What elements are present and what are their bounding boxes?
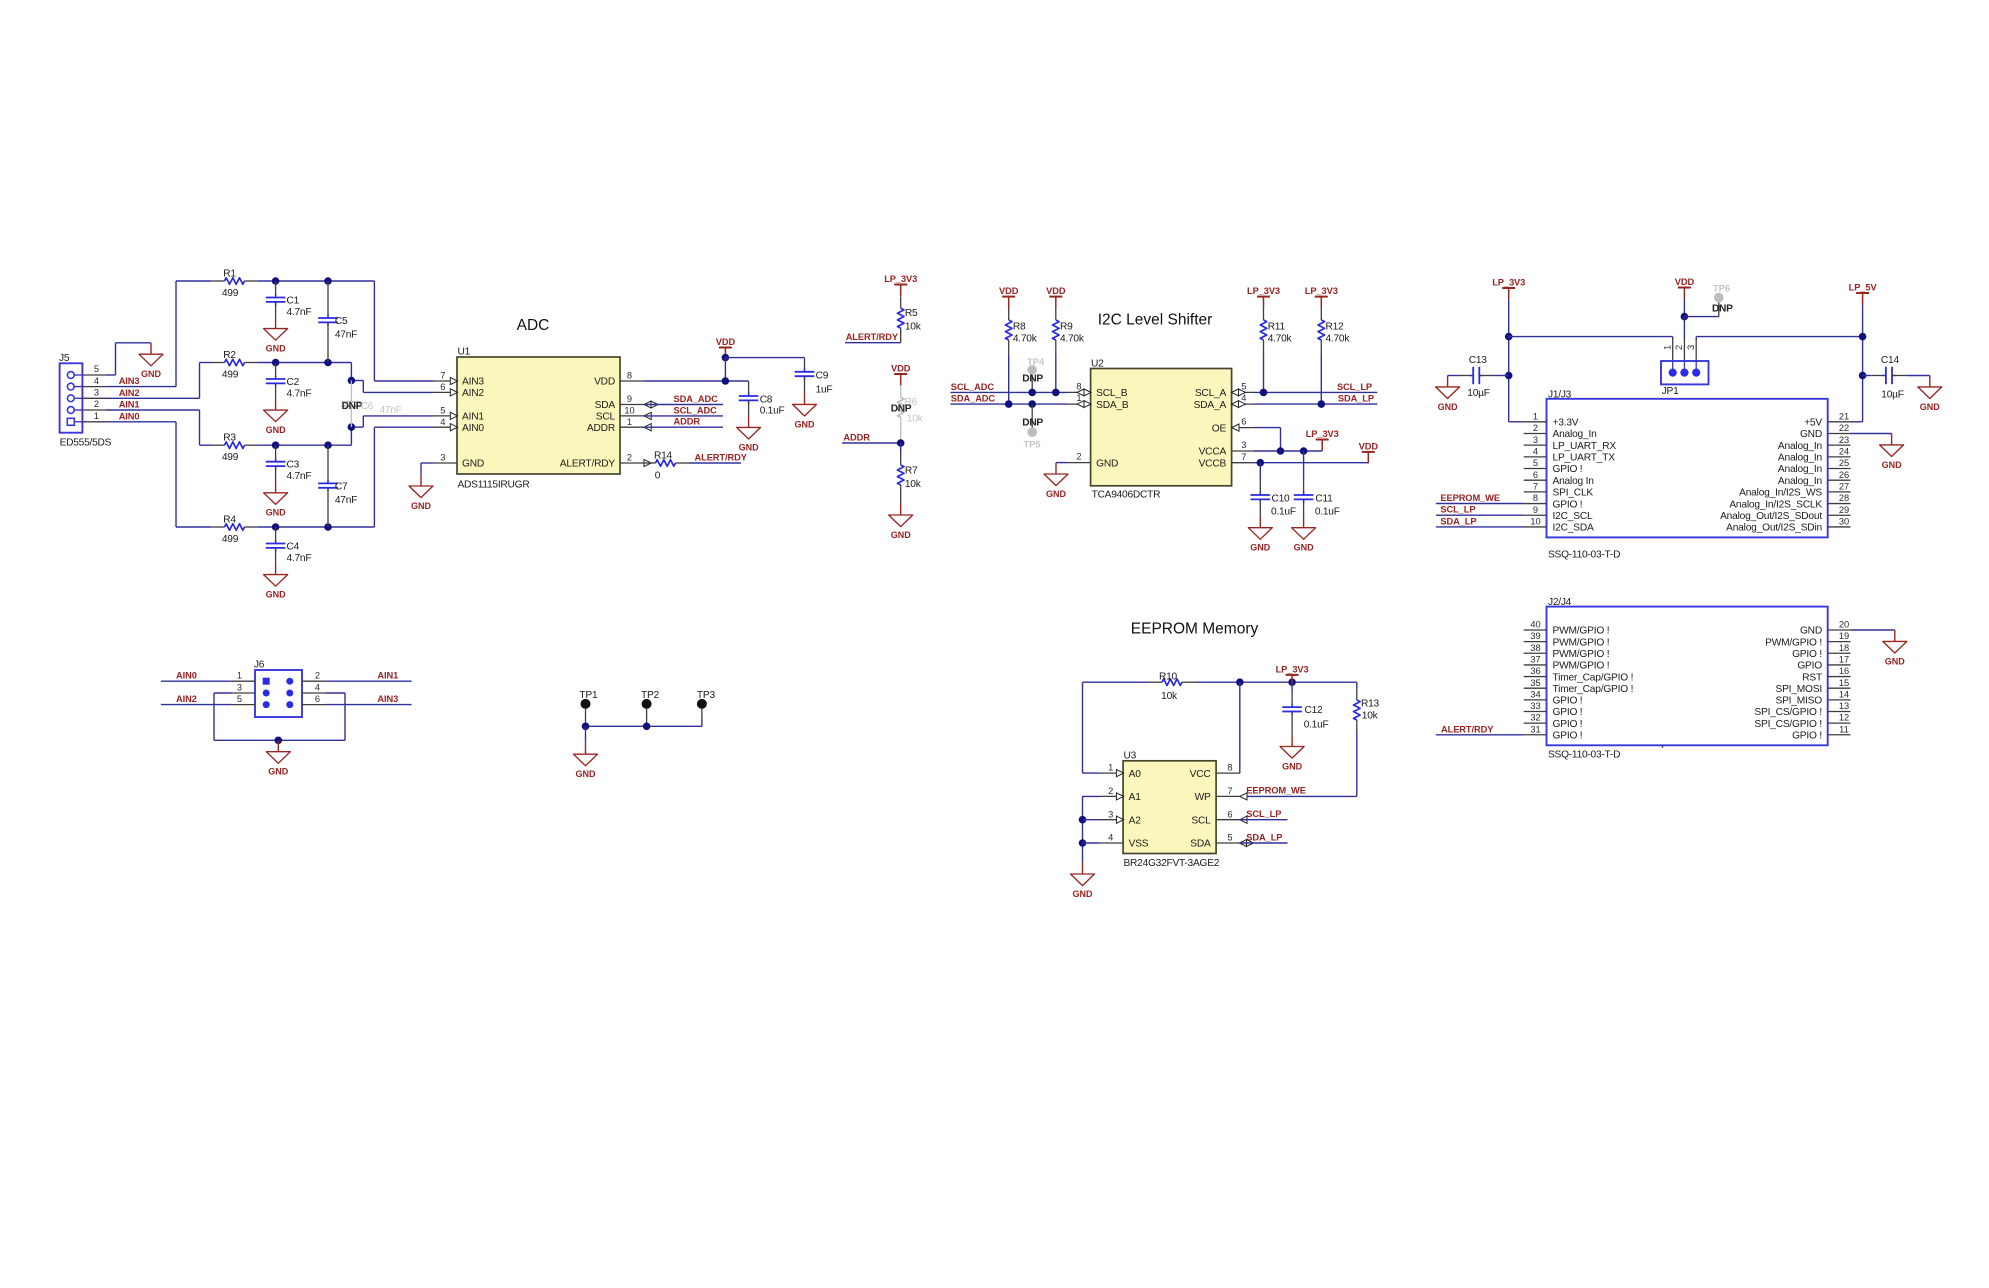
svg-text:10µF: 10µF xyxy=(1467,388,1489,399)
wire ALERT/RDY to R5 xyxy=(845,342,901,344)
J1 pin 5 GPIO ! xyxy=(1524,468,1547,470)
svg-text:GND: GND xyxy=(1046,489,1067,499)
capacitor C4 4.7nF xyxy=(272,523,280,531)
svg-text:4.7nF: 4.7nF xyxy=(287,553,312,564)
wire VDD to JP1 pin 2 xyxy=(1683,299,1685,317)
U3 pin 8 VCC xyxy=(1216,772,1240,774)
svg-text:Timer_Cap/GPIO !: Timer_Cap/GPIO ! xyxy=(1553,684,1634,695)
ground left of C13 xyxy=(1436,376,1460,412)
power flag LP_5V xyxy=(1849,282,1878,304)
svg-text:17: 17 xyxy=(1839,655,1849,665)
wire SDA_LP to J1 pin 10 xyxy=(1436,526,1524,528)
svg-text:GPIO !: GPIO ! xyxy=(1553,696,1583,707)
U1 pin 10 SCL xyxy=(620,415,644,417)
svg-text:GND: GND xyxy=(1073,889,1094,899)
svg-text:12: 12 xyxy=(1839,713,1849,723)
U3 SDA pin bidirectional arrow xyxy=(1240,840,1254,847)
svg-text:4.70k: 4.70k xyxy=(1326,333,1351,344)
svg-text:WP: WP xyxy=(1195,792,1211,803)
wire R10 to LP_3V3 and R13 xyxy=(1196,681,1357,683)
J2 pin 20 GND xyxy=(1828,629,1851,631)
svg-text:3: 3 xyxy=(440,453,445,463)
svg-text:1: 1 xyxy=(1533,411,1538,421)
wire VCC to R10 node xyxy=(1239,682,1241,773)
svg-text:9: 9 xyxy=(1533,505,1538,515)
svg-text:C1: C1 xyxy=(287,296,300,307)
J5 pin 5 xyxy=(74,374,82,376)
U1 pin 4 AIN0 xyxy=(433,426,457,428)
capacitor C14 10uF xyxy=(1863,375,1872,377)
svg-text:SDA: SDA xyxy=(1190,839,1211,850)
wire R3 net to U1 AIN1 xyxy=(350,427,352,445)
svg-text:J6: J6 xyxy=(254,660,265,671)
op IC U1 ADS1115IRUGR ADC xyxy=(457,357,620,474)
wire ADDR xyxy=(644,426,723,428)
capacitor C2 4.7nF xyxy=(272,359,280,367)
svg-text:VDD: VDD xyxy=(1359,441,1379,451)
svg-text:5: 5 xyxy=(1533,458,1538,468)
svg-text:GPIO !: GPIO ! xyxy=(1792,649,1822,660)
IC U2 TCA9406DCTR level shifter xyxy=(1091,369,1232,486)
J1 pin 8 GPIO ! xyxy=(1524,503,1547,505)
U1 pin 1 ADDR xyxy=(620,426,644,428)
svg-text:SCL_ADC: SCL_ADC xyxy=(674,405,718,415)
J2 pin 17 GPIO xyxy=(1828,664,1851,666)
svg-text:7: 7 xyxy=(1533,481,1538,491)
svg-text:14: 14 xyxy=(1839,689,1849,699)
svg-text:1: 1 xyxy=(237,671,242,681)
svg-text:R10: R10 xyxy=(1159,671,1178,682)
power flag LP_3V3 at J1 xyxy=(1492,277,1525,299)
svg-text:GND: GND xyxy=(1882,460,1903,470)
ground below C3 xyxy=(264,481,288,517)
svg-text:R3: R3 xyxy=(223,433,236,444)
svg-text:GPIO !: GPIO ! xyxy=(1792,730,1822,741)
svg-text:SCL_LP: SCL_LP xyxy=(1440,505,1475,515)
capacitor C8 0.1uF xyxy=(748,381,750,396)
svg-text:LP_3V3: LP_3V3 xyxy=(1247,286,1280,296)
J2 pin 40 PWM/GPIO ! xyxy=(1524,629,1547,631)
svg-text:GND: GND xyxy=(266,590,287,600)
wire SCL_LP at U3 xyxy=(1240,819,1288,821)
svg-text:R5: R5 xyxy=(905,308,918,319)
J2 pin 37 PWM/GPIO ! xyxy=(1524,664,1547,666)
wire VCCA to LP_3V3 xyxy=(1254,450,1322,452)
svg-text:VDD: VDD xyxy=(999,286,1019,296)
svg-text:499: 499 xyxy=(222,370,239,381)
svg-text:35: 35 xyxy=(1530,678,1540,688)
ground at J1 pin 22 xyxy=(1880,434,1904,470)
svg-text:1uF: 1uF xyxy=(816,385,833,396)
wire TP bus to ground xyxy=(585,726,587,743)
svg-text:PWM/GPIO !: PWM/GPIO ! xyxy=(1553,661,1610,672)
svg-text:10k: 10k xyxy=(905,479,922,490)
J6 pin 6 xyxy=(302,704,325,706)
wire SCL_LP to J1 pin 9 xyxy=(1436,514,1524,516)
svg-text:4.70k: 4.70k xyxy=(1268,333,1293,344)
svg-text:GND: GND xyxy=(891,530,912,540)
svg-text:GND: GND xyxy=(266,508,287,518)
J1 pin 27 Analog_In/I2S_WS xyxy=(1828,491,1851,493)
svg-text:PWM/GPIO !: PWM/GPIO ! xyxy=(1553,637,1610,648)
JP1 pin 3 xyxy=(1695,361,1697,373)
ground below C1 xyxy=(264,317,288,353)
svg-text:5: 5 xyxy=(440,406,445,416)
ground below J6 xyxy=(266,740,290,776)
svg-text:AIN2: AIN2 xyxy=(119,388,140,398)
svg-text:AIN0: AIN0 xyxy=(119,411,140,421)
U3 pin 5 SDA xyxy=(1216,842,1240,844)
wire SDA_ADC to U2 xyxy=(950,403,1068,405)
svg-text:31: 31 xyxy=(1530,724,1540,734)
svg-text:J5: J5 xyxy=(59,353,70,364)
svg-text:1: 1 xyxy=(1108,763,1113,773)
svg-text:7: 7 xyxy=(1241,452,1246,462)
svg-text:GPIO !: GPIO ! xyxy=(1553,707,1583,718)
svg-text:Analog_Out/I2S_SDin: Analog_Out/I2S_SDin xyxy=(1726,523,1822,534)
svg-text:DNP: DNP xyxy=(1022,374,1043,385)
power flag LP_3V3 at EEPROM xyxy=(1276,664,1309,686)
ground at J2 pin 20 xyxy=(1883,630,1907,666)
U2 pin 3 VCCA xyxy=(1232,450,1254,452)
svg-text:8: 8 xyxy=(1533,493,1538,503)
capacitor C6 47nF DNP xyxy=(348,377,356,385)
wire ADDR to R7 xyxy=(842,442,901,444)
U1 pin 9 SDA xyxy=(620,404,644,406)
svg-text:0: 0 xyxy=(655,471,661,482)
svg-text:Analog_In/I2S_SCLK: Analog_In/I2S_SCLK xyxy=(1729,499,1822,510)
svg-text:OE: OE xyxy=(1212,423,1227,434)
wire ALERT/RDY to J2 pin 31 xyxy=(1436,734,1524,736)
resistor R9 4.70k xyxy=(1055,308,1057,320)
svg-text:499: 499 xyxy=(222,534,239,545)
ground below C9 xyxy=(793,393,817,429)
svg-text:0.1uF: 0.1uF xyxy=(760,406,785,417)
U2 pin 4 SDA_A xyxy=(1232,403,1254,405)
svg-text:1: 1 xyxy=(94,411,99,421)
svg-text:C13: C13 xyxy=(1469,355,1488,366)
U3 pin 1 A0 xyxy=(1100,772,1123,774)
svg-text:34: 34 xyxy=(1530,689,1540,699)
capacitor C11 0.1uF xyxy=(1303,451,1305,479)
svg-text:VDD: VDD xyxy=(1675,277,1695,287)
svg-text:5: 5 xyxy=(94,364,99,374)
J1 pin 23 Analog_In xyxy=(1828,444,1851,446)
svg-text:GND: GND xyxy=(1282,761,1303,771)
svg-text:SDA_B: SDA_B xyxy=(1096,400,1129,411)
svg-text:TP6: TP6 xyxy=(1713,284,1730,294)
svg-text:U1: U1 xyxy=(458,347,471,358)
svg-text:0.1uF: 0.1uF xyxy=(1304,719,1329,730)
svg-text:GND: GND xyxy=(739,442,760,452)
ground below C11 xyxy=(1292,516,1316,552)
svg-text:I2C Level Shifter: I2C Level Shifter xyxy=(1098,312,1213,329)
svg-text:DNP: DNP xyxy=(891,404,912,415)
svg-text:GND: GND xyxy=(1885,656,1906,666)
svg-text:GND: GND xyxy=(462,459,484,470)
svg-text:4.7nF: 4.7nF xyxy=(287,307,312,318)
test point TP6 DNP xyxy=(1684,316,1718,318)
resistor R12 4.70k xyxy=(1320,308,1322,320)
U3 WP pin input arrow xyxy=(1240,793,1247,800)
power flag VDD at R9 xyxy=(1046,286,1066,308)
svg-text:C11: C11 xyxy=(1315,493,1333,504)
svg-text:AIN0: AIN0 xyxy=(176,670,197,680)
wire R13 to WP xyxy=(1356,730,1358,796)
svg-text:11: 11 xyxy=(1839,724,1849,734)
svg-text:2: 2 xyxy=(1076,452,1081,462)
svg-text:PWM/GPIO !: PWM/GPIO ! xyxy=(1553,626,1610,637)
svg-text:TP3: TP3 xyxy=(697,690,716,701)
svg-text:U3: U3 xyxy=(1124,751,1137,762)
resistor R8 4.70k xyxy=(1008,308,1010,320)
wire ALERT/RDY from R14 xyxy=(689,462,741,464)
svg-text:3: 3 xyxy=(1686,345,1696,350)
svg-text:C10: C10 xyxy=(1272,493,1291,504)
wire EEPROM_WE to J1 pin 8 xyxy=(1436,503,1524,505)
svg-text:32: 32 xyxy=(1530,713,1540,723)
svg-text:LP_UART_RX: LP_UART_RX xyxy=(1553,441,1617,452)
svg-text:ALERT/RDY: ALERT/RDY xyxy=(695,452,748,462)
svg-text:C14: C14 xyxy=(1881,355,1900,366)
svg-text:VDD: VDD xyxy=(891,363,911,373)
connector J6 xyxy=(255,670,302,717)
power flag LP_3V3 at R5 xyxy=(884,274,917,296)
U1 pin 5 AIN1 xyxy=(433,415,457,417)
wire A1 A2 VSS to ground xyxy=(1083,795,1100,797)
wire U1 VDD pin 8 xyxy=(644,380,749,382)
svg-text:3: 3 xyxy=(1108,809,1113,819)
svg-text:15: 15 xyxy=(1839,678,1849,688)
svg-text:5: 5 xyxy=(1241,382,1246,392)
U1 ALERT/RDY pin output arrow xyxy=(644,459,651,466)
svg-text:R4: R4 xyxy=(223,515,236,526)
svg-text:J1/J3: J1/J3 xyxy=(1548,389,1572,400)
svg-text:9: 9 xyxy=(627,394,632,404)
svg-text:38: 38 xyxy=(1530,643,1540,653)
svg-text:Timer_Cap/GPIO !: Timer_Cap/GPIO ! xyxy=(1553,672,1634,683)
svg-text:VDD: VDD xyxy=(594,377,615,388)
ground at U1 pin 3 xyxy=(409,475,433,511)
U1 pin 2 ALERT/RDY xyxy=(620,462,644,464)
svg-text:AIN3: AIN3 xyxy=(377,694,398,704)
svg-text:SDA_ADC: SDA_ADC xyxy=(951,394,996,404)
power flag VDD at VCCB xyxy=(1359,441,1379,463)
wire R12 to SDA_LP xyxy=(1320,354,1322,404)
svg-text:ALERT/RDY: ALERT/RDY xyxy=(1441,724,1494,734)
resistor R2 499 xyxy=(200,362,212,364)
resistor R5 10k xyxy=(900,296,902,308)
svg-text:0.1uF: 0.1uF xyxy=(1315,507,1340,518)
svg-text:22: 22 xyxy=(1839,423,1849,433)
U3 pin 7 WP xyxy=(1216,795,1240,797)
test point TP5 DNP xyxy=(1031,404,1033,427)
wire J1 pin 22 to ground xyxy=(1851,433,1892,435)
wire AIN3 to J6 pin 6 xyxy=(325,704,411,706)
J1 pin 29 Analog_Out/I2S_SDout xyxy=(1828,514,1851,516)
svg-text:ALERT/RDY: ALERT/RDY xyxy=(560,459,616,470)
wire SCL_ADC to U2 xyxy=(950,391,1068,393)
svg-text:ED555/5DS: ED555/5DS xyxy=(60,438,112,449)
wire VDD to C9 xyxy=(722,354,730,362)
wire LP_3V3 bus to JP1 pin 1 xyxy=(1509,336,1673,338)
svg-text:R1: R1 xyxy=(223,269,236,280)
svg-text:LP_5V: LP_5V xyxy=(1849,282,1878,292)
capacitor C7 47nF xyxy=(324,441,332,449)
power flag VDD at R6 xyxy=(891,363,911,385)
capacitor C12 0.1uF xyxy=(1291,682,1293,693)
svg-text:10k: 10k xyxy=(905,321,922,332)
svg-text:VCCA: VCCA xyxy=(1199,447,1227,458)
svg-text:21: 21 xyxy=(1839,411,1849,421)
svg-text:GND: GND xyxy=(1800,626,1822,637)
svg-text:3: 3 xyxy=(1241,440,1246,450)
svg-text:GND: GND xyxy=(1800,429,1822,440)
wire LP_3V3 rail down to J1 pin 1 xyxy=(1508,299,1510,421)
wire A0 feedback xyxy=(1082,682,1084,773)
svg-text:4.70k: 4.70k xyxy=(1013,333,1038,344)
svg-text:ADDR: ADDR xyxy=(674,417,701,427)
J2 pin 38 PWM/GPIO ! xyxy=(1524,652,1547,654)
J2 pin 39 PWM/GPIO ! xyxy=(1524,641,1547,643)
svg-text:PWM/GPIO !: PWM/GPIO ! xyxy=(1765,637,1822,648)
svg-text:SCL_LP: SCL_LP xyxy=(1337,382,1372,392)
svg-text:R7: R7 xyxy=(905,466,918,477)
resistor R3 499 xyxy=(200,444,212,446)
svg-text:SPI_MISO: SPI_MISO xyxy=(1775,696,1822,707)
svg-text:JP1: JP1 xyxy=(1662,386,1679,397)
connector J1/J3 SSQ-110-03-T-D xyxy=(1547,399,1828,538)
svg-text:C8: C8 xyxy=(760,394,773,405)
J1 pin 25 Analog_In xyxy=(1828,468,1851,470)
wire VCCB to VDD xyxy=(1254,462,1368,464)
U2 pin 2 GND xyxy=(1068,462,1090,464)
resistor R6 10k DNP xyxy=(900,385,902,397)
svg-text:SCL_B: SCL_B xyxy=(1096,388,1128,399)
svg-text:+5V: +5V xyxy=(1804,418,1822,429)
svg-text:C9: C9 xyxy=(816,370,829,381)
resistor R10 10k xyxy=(1083,681,1149,683)
wire SDA_ADC xyxy=(644,404,723,406)
svg-text:1: 1 xyxy=(627,417,632,427)
svg-text:R13: R13 xyxy=(1361,698,1380,709)
svg-text:I2C_SDA: I2C_SDA xyxy=(1553,523,1594,534)
svg-text:ADS1115IRUGR: ADS1115IRUGR xyxy=(458,480,530,491)
svg-text:2: 2 xyxy=(94,399,99,409)
svg-text:ADDR: ADDR xyxy=(843,433,870,443)
svg-text:R14: R14 xyxy=(654,450,673,461)
J2 pin 14 SPI_MISO xyxy=(1828,699,1851,701)
svg-text:BR24G32FVT-3AGE2: BR24G32FVT-3AGE2 xyxy=(1124,858,1220,869)
svg-text:Analog_In: Analog_In xyxy=(1778,441,1822,452)
resistor R1 499 xyxy=(176,280,211,282)
wire AIN2 to J6 pin 5 xyxy=(161,704,232,706)
U3 pin 2 A1 xyxy=(1100,795,1123,797)
capacitor C5 47nF xyxy=(324,277,332,285)
J2 pin 15 SPI_MOSI xyxy=(1828,687,1851,689)
svg-text:R2: R2 xyxy=(223,350,236,361)
svg-text:25: 25 xyxy=(1839,458,1849,468)
svg-text:GND: GND xyxy=(1920,402,1941,412)
J2 pin 13 SPI_CS/GPIO ! xyxy=(1828,710,1851,712)
JP1 pin 1 xyxy=(1672,361,1674,373)
U1 SCL pin input arrow xyxy=(644,412,651,419)
svg-text:EEPROM_WE: EEPROM_WE xyxy=(1246,785,1306,795)
svg-text:DNP: DNP xyxy=(342,401,363,412)
svg-text:499: 499 xyxy=(222,288,239,299)
wire AIN1 to J6 pin 2 xyxy=(325,680,411,682)
svg-text:2: 2 xyxy=(1108,786,1113,796)
capacitor C9 1uF xyxy=(804,368,806,372)
wire test point bus xyxy=(701,718,703,726)
wire J5 pin5 to GND xyxy=(106,374,116,376)
svg-text:Analog_Out/I2S_SDout: Analog_Out/I2S_SDout xyxy=(1720,511,1822,522)
ground below C10 xyxy=(1248,516,1272,552)
svg-text:C12: C12 xyxy=(1305,705,1324,716)
svg-text:A0: A0 xyxy=(1129,769,1142,780)
jumper JP1 xyxy=(1661,361,1709,384)
svg-text:AIN0: AIN0 xyxy=(462,423,484,434)
svg-text:20: 20 xyxy=(1839,620,1849,630)
svg-text:4: 4 xyxy=(315,682,320,692)
svg-text:GPIO !: GPIO ! xyxy=(1553,464,1583,475)
connector J5 xyxy=(60,363,83,432)
U2 pin 6 OE xyxy=(1232,427,1254,429)
svg-text:10k: 10k xyxy=(1362,711,1379,722)
capacitor C13 10uF xyxy=(1448,375,1459,377)
svg-text:4: 4 xyxy=(1108,833,1113,843)
wire R11 to SCL_LP xyxy=(1263,354,1265,392)
J2 pin 33 GPIO ! xyxy=(1524,710,1547,712)
J2 pin 12 SPI_CS/GPIO ! xyxy=(1828,722,1851,724)
svg-text:EEPROM Memory: EEPROM Memory xyxy=(1131,620,1259,637)
svg-text:GND: GND xyxy=(1096,458,1118,469)
J2 pin 36 Timer_Cap/GPIO ! xyxy=(1524,676,1547,678)
svg-text:ADDR: ADDR xyxy=(587,423,615,434)
svg-text:GND: GND xyxy=(411,501,432,511)
wire JP1 pin 3 to LP_5V bus xyxy=(1695,338,1697,361)
svg-text:GND: GND xyxy=(1438,402,1459,412)
J1 pin 4 LP_UART_TX xyxy=(1524,456,1547,458)
J2 pin 16 RST xyxy=(1828,676,1851,678)
svg-text:10: 10 xyxy=(1530,517,1540,527)
svg-text:SCL: SCL xyxy=(596,412,616,423)
U1 pin 7 AIN3 xyxy=(433,380,457,382)
svg-text:AIN2: AIN2 xyxy=(176,694,197,704)
svg-text:R12: R12 xyxy=(1326,321,1345,332)
svg-text:SPI_MOSI: SPI_MOSI xyxy=(1775,684,1822,695)
ground below C4 xyxy=(264,563,288,599)
svg-text:37: 37 xyxy=(1530,655,1540,665)
svg-text:6: 6 xyxy=(1227,809,1232,819)
svg-text:GND: GND xyxy=(576,769,597,779)
svg-text:24: 24 xyxy=(1839,446,1849,456)
svg-text:A1: A1 xyxy=(1129,792,1142,803)
svg-text:18: 18 xyxy=(1839,643,1849,653)
svg-text:4: 4 xyxy=(1533,446,1538,456)
resistor R11 4.70k xyxy=(1263,308,1265,320)
U1 pin 3 GND xyxy=(433,462,457,464)
U2 pin 5 SCL_A xyxy=(1232,391,1254,393)
svg-text:33: 33 xyxy=(1530,701,1540,711)
svg-text:SSQ-110-03-T-D: SSQ-110-03-T-D xyxy=(1548,550,1620,561)
svg-text:TP4: TP4 xyxy=(1027,357,1045,367)
J1 pin 7 SPI_CLK xyxy=(1524,491,1547,493)
svg-text:4: 4 xyxy=(1241,393,1246,403)
wire AIN2 xyxy=(106,397,200,399)
svg-text:SPI_CS/GPIO !: SPI_CS/GPIO ! xyxy=(1754,719,1822,730)
svg-text:ADC: ADC xyxy=(517,317,550,334)
